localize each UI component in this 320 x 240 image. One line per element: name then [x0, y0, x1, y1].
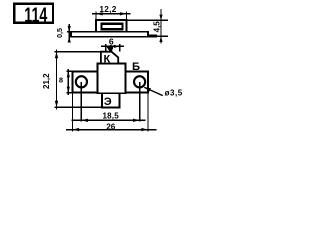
- dimension 0,5 stub top: [67, 31, 73, 33]
- dimension 26 arrow right: [141, 128, 148, 131]
- hole diameter leader line: [144, 87, 163, 95]
- dimension 21,2 extension line bottom: [54, 106, 102, 108]
- hole centre extension right: [139, 82, 141, 121]
- side view body: [96, 20, 127, 32]
- dimension 8 arrow bottom: [67, 87, 70, 93]
- dimension 8 stub top: [66, 70, 72, 72]
- svg-text:6: 6: [109, 37, 114, 47]
- svg-text:12,2: 12,2: [99, 4, 116, 14]
- bottom view body: [98, 64, 126, 94]
- dimension 18,5 arrow right: [133, 119, 140, 122]
- dimension 18,5 line: [72, 119, 146, 121]
- dimension 21,2 line: [56, 49, 58, 109]
- hole diameter leader arrowhead: [144, 87, 151, 92]
- dimension 6 arrow right: [114, 45, 120, 48]
- dimension 4,5 extension line top: [127, 19, 168, 21]
- dimension 6 line: [101, 45, 124, 47]
- dimension 18,5 arrow left: [81, 119, 88, 122]
- dimension 6 leader arrow to tab: [107, 47, 113, 52]
- dimension 12,2 arrow left: [96, 12, 103, 15]
- bottom view right ear: [126, 71, 149, 92]
- dimension 6 arrow left: [106, 45, 112, 48]
- dimension 26 arrow left: [73, 128, 80, 131]
- dimension 4,5 line: [160, 9, 162, 43]
- svg-text:Б: Б: [132, 61, 140, 73]
- svg-text:21,2: 21,2: [42, 73, 51, 89]
- dimension 12,2 arrow right: [120, 12, 127, 15]
- dimension 0,5 arrow top: [68, 26, 71, 32]
- dimension 4,5 arrow top: [159, 15, 162, 21]
- side view cap: [102, 24, 123, 30]
- dimension 6 extension line right: [119, 44, 121, 52]
- right mounting hole: [134, 76, 145, 87]
- ear edge extension right: [147, 93, 149, 131]
- dimension 8 stub bottom: [66, 92, 72, 94]
- dimension 21,2 arrow bottom: [55, 101, 58, 108]
- ear edge extension left: [72, 93, 74, 131]
- dimension 12,2 extension line right: [126, 12, 128, 20]
- dimension 26 line: [66, 129, 157, 131]
- dimension 6 extension line left: [105, 44, 107, 52]
- hole centre extension left: [80, 82, 82, 121]
- svg-text:К: К: [103, 53, 110, 65]
- dimension 21,2 arrow top: [55, 52, 58, 59]
- dimension 0,5 arrow bottom: [68, 37, 71, 43]
- package type box 114: [14, 4, 53, 23]
- svg-text:4,5: 4,5: [153, 21, 162, 33]
- svg-text:8: 8: [59, 76, 63, 85]
- side view flange (with right step): [71, 32, 156, 37]
- dimension 21,2 extension line top: [54, 51, 101, 53]
- dimension 12,2 line: [92, 13, 131, 15]
- left mounting hole: [76, 76, 87, 87]
- dimension 4,5 extension line bottom: [151, 35, 169, 37]
- bottom view left ear: [73, 71, 98, 92]
- svg-text:ø3,5: ø3,5: [165, 88, 183, 97]
- dimension 12,2 extension line left: [95, 12, 97, 20]
- dimension 8 line: [67, 69, 69, 95]
- svg-text:Э: Э: [104, 96, 112, 108]
- svg-text:114: 114: [24, 2, 48, 27]
- svg-text:26: 26: [106, 122, 116, 131]
- dimension 0,5 line: [68, 24, 70, 42]
- collector tab (К): [101, 52, 118, 64]
- dimension 4,5 arrow bottom: [159, 36, 162, 42]
- svg-text:18,5: 18,5: [103, 112, 120, 121]
- emitter tab (Э): [102, 93, 120, 107]
- svg-text:0,5: 0,5: [57, 28, 64, 38]
- dimension 8 arrow top: [67, 71, 70, 77]
